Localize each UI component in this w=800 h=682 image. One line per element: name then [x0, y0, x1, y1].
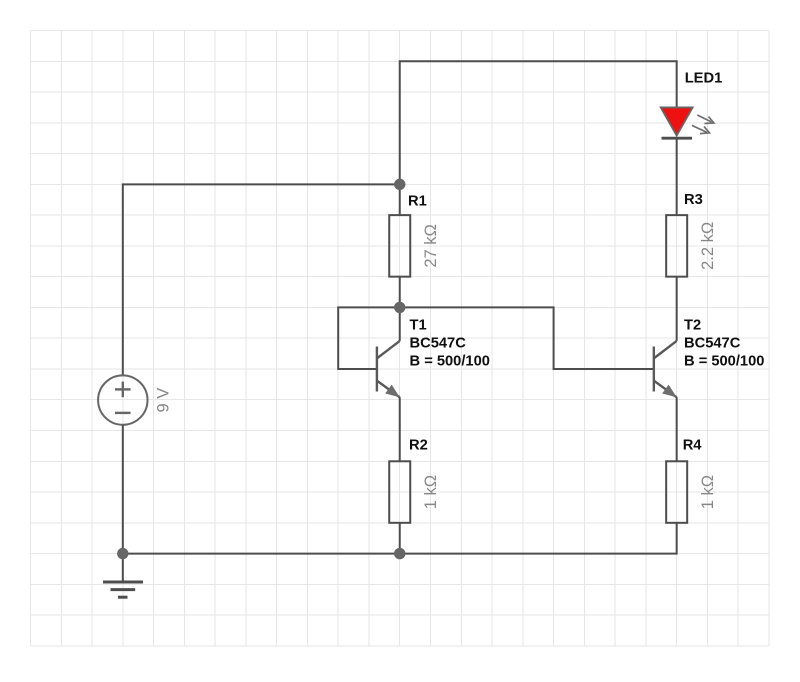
- svg-text:R2: R2: [409, 438, 428, 454]
- wire: R2 bottom to node C: [399, 523, 401, 554]
- wire: top rail from node A up and right to LED column: [400, 61, 677, 184]
- svg-text:LED1: LED1: [685, 71, 723, 87]
- svg-text:27 kΩ: 27 kΩ: [422, 224, 440, 268]
- node A junction: [394, 179, 405, 190]
- svg-text:1 kΩ: 1 kΩ: [699, 475, 717, 509]
- wire: battery bottom to node D: [122, 425, 124, 554]
- svg-text:2.2 kΩ: 2.2 kΩ: [699, 222, 717, 270]
- wire: node B left loop to T1 base: [338, 307, 400, 369]
- LED light arrows: [692, 115, 714, 134]
- node D junction: [117, 548, 128, 559]
- svg-text:R1: R1: [408, 194, 427, 210]
- LED LED1: [661, 107, 693, 135]
- svg-text:BC547C: BC547C: [684, 335, 741, 351]
- ground: [103, 554, 143, 598]
- node B junction: [394, 302, 405, 313]
- voltage source V1 9V: [98, 375, 147, 424]
- transistor T1: [377, 307, 400, 397]
- svg-text:1 kΩ: 1 kΩ: [422, 475, 440, 509]
- wire: node B right to T2 base: [400, 307, 654, 369]
- svg-text:T2: T2: [684, 317, 701, 333]
- svg-text:T1: T1: [410, 317, 427, 333]
- svg-text:B = 500/100: B = 500/100: [684, 354, 764, 370]
- transistor T2: [654, 341, 677, 397]
- resistor R2: [389, 461, 410, 523]
- svg-text:9 V: 9 V: [154, 388, 172, 413]
- wire: mid rail from battery top to node A: [123, 184, 400, 375]
- resistor R1: [389, 215, 410, 277]
- resistor R4: [666, 461, 687, 523]
- wire: R1 bottom to node B: [399, 277, 401, 308]
- svg-text:R3: R3: [684, 192, 703, 208]
- wire: LED cathode to R3: [676, 138, 678, 215]
- node C junction: [394, 548, 405, 559]
- wire: T2 emitter to R4: [676, 397, 678, 461]
- svg-text:BC547C: BC547C: [410, 335, 467, 351]
- wire: R3 bottom to T2 collector: [676, 277, 678, 341]
- wire: T1 emitter to R2: [399, 397, 401, 461]
- svg-text:R4: R4: [683, 438, 703, 454]
- wire: R1 top stub: [399, 184, 401, 215]
- wire: R4 bottom to bottom rail corner: [123, 523, 677, 554]
- resistor R3: [666, 215, 687, 277]
- svg-text:B = 500/100: B = 500/100: [410, 354, 490, 370]
